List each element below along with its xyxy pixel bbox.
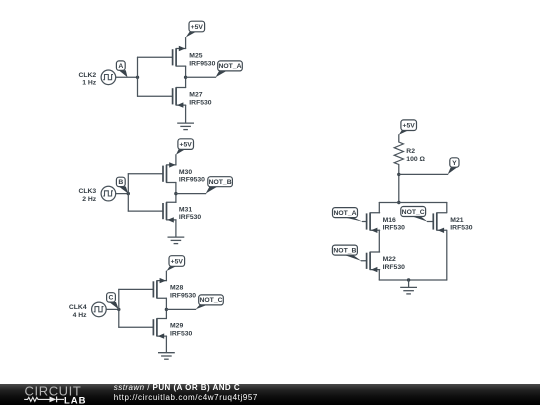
transistor M28 (P) <box>153 278 196 300</box>
svg-text:NOT_A: NOT_A <box>333 210 356 217</box>
svg-text:NOT_C: NOT_C <box>402 209 425 216</box>
wire +5V to R2 <box>398 135 400 142</box>
wire M30 drain to node NOT_B <box>175 183 177 203</box>
wire to M28 gate <box>119 288 154 290</box>
flag +5V (circuit 1) <box>186 21 205 37</box>
svg-text:M30: M30 <box>179 169 192 176</box>
wire to M27 gate <box>138 95 173 97</box>
svg-text:IRF530: IRF530 <box>450 225 473 232</box>
junction node NOT_A <box>184 76 187 79</box>
svg-text:B: B <box>118 179 123 186</box>
svg-text:M27: M27 <box>189 92 202 99</box>
svg-text:IRF9530: IRF9530 <box>189 60 215 67</box>
svg-text:M31: M31 <box>179 206 192 213</box>
junction at C split <box>117 308 120 311</box>
junction ground stem <box>407 278 410 281</box>
wire gate split vertical <box>137 57 139 96</box>
svg-text:NOT_B: NOT_B <box>333 247 356 254</box>
junction node NOT_C <box>165 308 168 311</box>
svg-text:IRF9530: IRF9530 <box>170 292 196 299</box>
svg-text:CLK4: CLK4 <box>69 304 87 311</box>
svg-text:1 Hz: 1 Hz <box>82 80 97 87</box>
wire node to NOT_C flag <box>166 308 195 310</box>
footer bar <box>0 384 540 405</box>
svg-text:M29: M29 <box>170 323 183 330</box>
wire node to NOT_A flag <box>186 76 216 78</box>
svg-text:IRF530: IRF530 <box>189 99 212 106</box>
ground (circuit 2) <box>168 237 185 244</box>
svg-text:NOT_A: NOT_A <box>218 63 241 70</box>
junction node NOT_B <box>174 192 177 195</box>
source V-CLK3 square-wave source <box>78 186 115 203</box>
flag +5V (right) <box>399 120 417 135</box>
svg-text:Y: Y <box>452 160 457 167</box>
wire M29 source to ground <box>165 336 167 352</box>
transistor M22 (N) <box>367 252 406 272</box>
wire to M31 gate <box>128 210 163 212</box>
svg-text:IRF530: IRF530 <box>170 330 193 337</box>
flag node A <box>116 61 127 77</box>
source V-CLK2 square-wave source <box>78 70 115 87</box>
wire M30 source to +5V <box>175 155 177 165</box>
transistor M16 (N) <box>367 213 406 233</box>
source V-CLK4 square-wave source <box>69 302 106 319</box>
flag node C <box>107 293 119 310</box>
wire to M25 gate <box>138 56 173 58</box>
wire CLK2 output <box>116 76 138 78</box>
svg-text:+5V: +5V <box>403 123 416 130</box>
svg-text:C: C <box>109 295 114 302</box>
svg-text:LAB: LAB <box>64 395 87 405</box>
svg-text:R2: R2 <box>406 148 415 155</box>
junction at B split <box>127 192 130 195</box>
wire gate split vertical 3 <box>118 289 120 327</box>
CircuitLab logo <box>20 379 130 405</box>
ground (circuit 1) <box>177 123 194 130</box>
wire NOT_C to M21 gate <box>427 221 433 223</box>
svg-text:M25: M25 <box>189 53 202 60</box>
svg-text:IRF530: IRF530 <box>383 225 406 232</box>
svg-text:IRF9530: IRF9530 <box>179 177 205 184</box>
wire node Y to flag <box>399 173 448 175</box>
wire M25 source to +5V <box>185 38 187 49</box>
footer url text <box>114 393 258 402</box>
transistor M29 (N) <box>153 319 192 339</box>
svg-text:+5V: +5V <box>180 141 193 148</box>
wire NOT_A to M16 gate <box>362 221 366 223</box>
flag +5V (circuit 3) <box>167 256 185 271</box>
svg-text:M22: M22 <box>383 256 396 263</box>
wire M22 to bottom rail <box>378 270 380 280</box>
wire M25 drain to node NOT_A <box>185 66 187 87</box>
transistor M30 (P) <box>163 162 205 184</box>
wire CLK4 output <box>106 308 119 310</box>
wire top rail <box>379 202 447 204</box>
transistor M25 (P) <box>173 46 216 68</box>
wire bottom rail <box>379 279 447 281</box>
svg-text:NOT_B: NOT_B <box>209 179 232 186</box>
wire to M29 gate <box>119 326 154 328</box>
transistor M31 (N) <box>163 202 201 222</box>
junction rail top <box>397 201 400 204</box>
wire R2 to rail <box>398 165 400 203</box>
flag NOT_C output <box>196 295 224 309</box>
wire to ground (right) <box>408 280 410 287</box>
resistor R2 100 Ohm <box>394 142 425 165</box>
svg-text:4 Hz: 4 Hz <box>73 312 88 319</box>
ground (circuit 3) <box>158 353 175 360</box>
wire CLK3 output <box>116 193 129 195</box>
wire node to NOT_B flag <box>176 193 206 195</box>
flag NOT_A input <box>333 208 363 222</box>
svg-text:CLK2: CLK2 <box>78 72 96 79</box>
junction at A split <box>136 76 139 79</box>
ground (right) <box>400 287 417 294</box>
wire M28 drain to node NOT_C <box>165 298 167 318</box>
flag NOT_B input <box>332 245 361 261</box>
flag node B <box>116 177 128 193</box>
svg-text:IRF530: IRF530 <box>383 264 406 271</box>
flag NOT_B output <box>206 177 233 194</box>
flag +5V (circuit 2) <box>176 139 194 155</box>
svg-text:2 Hz: 2 Hz <box>82 196 97 203</box>
svg-text:IRF530: IRF530 <box>179 214 202 221</box>
wire M28 source to +5V <box>165 271 167 281</box>
svg-text:+5V: +5V <box>191 24 204 31</box>
svg-text:CLK3: CLK3 <box>78 188 96 195</box>
svg-text:NOT_C: NOT_C <box>199 297 222 304</box>
wire M21 to bottom rail <box>446 230 448 280</box>
svg-text:M28: M28 <box>170 285 183 292</box>
transistor M27 (N) <box>173 88 212 108</box>
wire to M30 gate <box>128 173 163 175</box>
svg-text:M16: M16 <box>383 217 396 224</box>
wire rail to M16 drain <box>378 203 380 213</box>
svg-text:+5V: +5V <box>171 258 184 265</box>
junction node Y <box>397 173 400 176</box>
svg-text:100 Ω: 100 Ω <box>406 156 425 163</box>
wire rail to M21 drain <box>446 203 448 213</box>
wire M31 source to ground <box>175 220 177 237</box>
flag NOT_C input <box>401 207 428 222</box>
wire gate split vertical 2 <box>127 174 129 211</box>
flag Y output <box>448 158 459 175</box>
svg-text:A: A <box>118 63 123 70</box>
transistor M21 (N) <box>433 213 473 233</box>
flag NOT_A output <box>216 61 243 77</box>
wire M16 to M22 <box>378 230 380 252</box>
svg-text:M21: M21 <box>450 217 463 224</box>
footer title text <box>114 383 240 392</box>
wire NOT_B to M22 gate <box>361 260 366 262</box>
wire M27 source to ground <box>185 105 187 123</box>
